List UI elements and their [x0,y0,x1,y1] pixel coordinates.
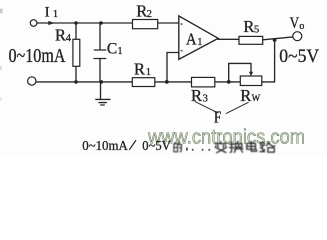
svg-text:0~5V: 0~5V [279,46,319,67]
svg-text:C: C [107,41,117,58]
svg-text:4: 4 [66,33,72,44]
svg-text:2: 2 [147,9,152,20]
svg-text:R: R [55,26,66,45]
svg-text:W: W [252,93,261,103]
svg-text:V: V [290,15,300,32]
svg-text:0~5V: 0~5V [142,139,170,154]
svg-text:5: 5 [254,25,259,36]
svg-text:0~10mA: 0~10mA [82,139,128,154]
svg-text:1: 1 [197,37,202,48]
svg-text:I: I [45,4,50,20]
svg-text:0~10mA: 0~10mA [9,46,66,67]
svg-text:R: R [191,86,202,105]
svg-text:R: R [136,1,147,20]
svg-text:R: R [243,17,254,36]
svg-text:1: 1 [53,9,58,20]
svg-text:3: 3 [203,94,208,105]
svg-text:R: R [134,59,145,78]
svg-text:www.cntronics.com: www.cntronics.com [147,125,305,148]
svg-text:R: R [240,86,251,105]
svg-text:A: A [186,29,197,48]
svg-text:1: 1 [146,67,151,78]
svg-text:F: F [214,107,222,126]
svg-text:o: o [299,21,304,32]
svg-text:1: 1 [118,46,123,57]
